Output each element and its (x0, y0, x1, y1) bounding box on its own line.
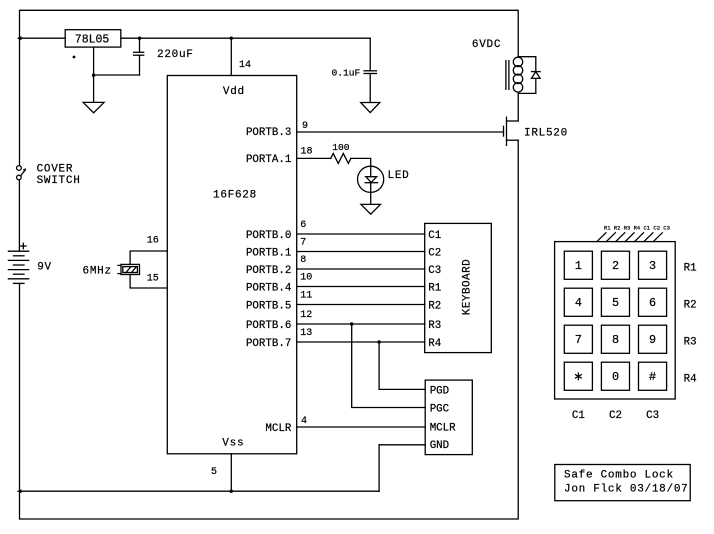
svg-text:R4: R4 (428, 338, 441, 350)
svg-text:R2: R2 (428, 301, 441, 313)
svg-text:PORTB.0: PORTB.0 (246, 230, 291, 242)
svg-text:R1: R1 (428, 283, 441, 295)
svg-text:Vdd: Vdd (223, 86, 245, 98)
svg-text:9V: 9V (37, 262, 52, 274)
svg-text:220uF: 220uF (157, 49, 194, 61)
svg-text:R2: R2 (684, 299, 697, 311)
svg-text:SWITCH: SWITCH (37, 175, 81, 187)
svg-text:2: 2 (612, 259, 619, 273)
svg-text:6: 6 (649, 296, 656, 310)
svg-text:Jon Flck 03/18/07: Jon Flck 03/18/07 (564, 483, 688, 495)
svg-text:R1 R2 R3 R4 C1 C2 C3: R1 R2 R3 R4 C1 C2 C3 (604, 225, 670, 232)
svg-text:PGD: PGD (430, 385, 449, 397)
svg-text:5: 5 (211, 467, 217, 478)
svg-text:PORTB.7: PORTB.7 (246, 338, 291, 350)
svg-text:6MHz: 6MHz (83, 266, 112, 278)
svg-text:IRL520: IRL520 (524, 127, 568, 139)
svg-text:12: 12 (300, 310, 312, 321)
svg-text:PORTB.6: PORTB.6 (246, 320, 291, 332)
svg-text:6: 6 (300, 220, 306, 231)
svg-text:16: 16 (147, 236, 159, 247)
svg-text:0.1uF: 0.1uF (332, 67, 361, 78)
svg-text:C2: C2 (609, 410, 622, 422)
svg-text:PORTB.5: PORTB.5 (246, 301, 291, 313)
svg-text:16F628: 16F628 (213, 189, 257, 201)
svg-text:PORTB.1: PORTB.1 (246, 248, 291, 260)
svg-text:0: 0 (612, 370, 619, 384)
svg-text:PGC: PGC (430, 403, 450, 415)
svg-text:COVER: COVER (37, 164, 74, 176)
svg-text:R4: R4 (684, 373, 697, 385)
svg-text:5: 5 (612, 296, 619, 310)
svg-text:14: 14 (239, 60, 251, 71)
svg-text:KEYBOARD: KEYBOARD (461, 259, 473, 315)
svg-text:LED: LED (388, 170, 410, 182)
svg-text:PORTB.3: PORTB.3 (246, 127, 291, 139)
svg-text:7: 7 (575, 333, 582, 347)
svg-text:4: 4 (575, 296, 582, 310)
svg-text:MCLR: MCLR (430, 423, 456, 435)
svg-text:3: 3 (649, 259, 656, 273)
svg-text:7: 7 (300, 237, 306, 248)
svg-text:8: 8 (612, 333, 619, 347)
svg-text:PORTB.4: PORTB.4 (246, 283, 291, 295)
svg-text:100: 100 (332, 142, 350, 153)
svg-text:Safe Combo Lock: Safe Combo Lock (564, 470, 674, 482)
svg-text:PORTA.1: PORTA.1 (246, 154, 291, 166)
svg-text:GND: GND (430, 440, 449, 452)
svg-text:R3: R3 (684, 336, 697, 348)
svg-text:C1: C1 (572, 410, 585, 422)
svg-text:C2: C2 (428, 248, 441, 260)
svg-text:78L05: 78L05 (75, 33, 110, 46)
svg-text:9: 9 (302, 121, 308, 132)
svg-text:R1: R1 (684, 262, 697, 274)
svg-text:C1: C1 (428, 230, 441, 242)
svg-text:11: 11 (300, 290, 312, 301)
svg-text:15: 15 (147, 274, 159, 285)
svg-text:8: 8 (300, 255, 306, 266)
svg-text:PORTB.2: PORTB.2 (246, 265, 291, 277)
svg-text:C3: C3 (646, 410, 659, 422)
svg-text:18: 18 (301, 146, 313, 157)
svg-text:9: 9 (649, 333, 656, 347)
svg-text:1: 1 (575, 259, 582, 273)
svg-text:Vss: Vss (222, 437, 244, 449)
svg-text:R3: R3 (428, 320, 441, 332)
svg-text:C3: C3 (428, 265, 441, 277)
svg-text:#: # (649, 370, 656, 384)
svg-text:10: 10 (300, 272, 312, 283)
svg-text:MCLR: MCLR (265, 423, 291, 435)
svg-text:13: 13 (300, 328, 312, 339)
svg-text:4: 4 (301, 416, 307, 427)
svg-text:6VDC: 6VDC (472, 39, 501, 51)
